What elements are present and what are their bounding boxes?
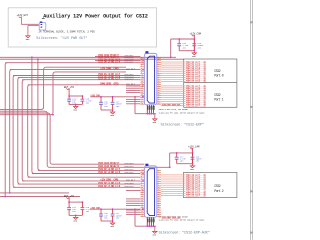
pin 21 right stub J2 [157,101,161,103]
svg-text:CSI2: CSI2 [214,70,220,74]
junction mounting pin 2 J3 [148,225,150,227]
svg-text:23: 23 [158,103,160,105]
junction cap1 top lower [176,152,178,154]
pin 5 right stub J2 [157,66,161,68]
wire port1 row 9 [161,101,185,103]
junction pin row upper 2 [142,62,144,64]
junction pin row lower 5 [142,208,144,210]
svg-text:14: 14 [158,83,160,85]
junction 3v3 cap1 lower [100,208,102,210]
svg-text:8: 8 [158,70,159,72]
wire port2 row 1 [161,174,185,176]
svg-text:CSI2_D2_L0_P...20: CSI2_D2_L0_P...20 [186,104,207,107]
wire port2 row 11 [161,195,185,197]
ground caps lower [190,164,194,168]
junction rail-row upper [170,56,172,58]
wire port0 row 3 [161,65,185,67]
pin 19 right stub J3 [157,209,161,211]
wire 3v3 rail lower [90,208,140,210]
svg-text:CSI2_D2_L0_P...20: CSI2_D2_L0_P...20 [186,194,207,197]
svg-text:I2C1_SDA I2C1_SCL: I2C1_SDA I2C1_SCL [162,216,181,219]
pin 16 left stub J2 [140,90,144,92]
pin 3 right stub J3 [157,174,161,176]
svg-text:2: 2 [141,57,142,59]
junction pin row lower 2 [142,173,144,175]
svg-text:2: 2 [158,169,159,171]
svg-text:6: 6 [158,178,159,180]
wire net BAT_+5V top row [0,58,184,60]
wire C-route 2 (row 71.9 to left-edge row 114.7) [0,72,126,115]
pin 1 right stub J3 [157,170,161,172]
pin 4 left stub J2 [140,64,144,66]
svg-text:CSI2_D2_P: CSI2_D2_P [125,77,135,80]
capacitor C17 [111,97,123,110]
pin 8 left stub J3 [140,185,144,187]
pin 13 left stub J2 [140,83,144,85]
connector J2 body [144,51,156,105]
wire shield bar J3 [135,225,156,227]
note box outline [8,8,156,47]
svg-text:10: 10 [141,74,143,76]
wire BAT_+5V lead upper [68,89,70,96]
wire bus vertical 4 [18,78,20,185]
svg-text:9: 9 [141,185,142,187]
pin 14 right stub J3 [157,198,161,200]
ground 3v3 caps lower [110,221,114,225]
svg-text:11: 11 [158,189,160,191]
wire ground drop [27,25,29,34]
wire port1 row 6 [161,95,185,97]
wire lower fan row 6 [13,186,140,188]
sheet symbol CSI2 port 2 box lower [184,172,237,197]
wire port0 row 6 [161,71,185,73]
svg-text:17: 17 [141,202,143,204]
pin 19 left stub J2 [140,97,144,99]
wire port2 row 2 [161,176,185,178]
junction pin row upper 1 [142,60,144,62]
svg-text:11: 11 [141,77,143,79]
wire upper stub pin row 6 [126,101,140,103]
wire upper fan row 7 [18,77,141,79]
wire bus vertical 7 [32,57,34,173]
svg-text:12: 12 [158,79,160,81]
pin 5 left stub J2 [140,66,144,68]
pin 4 right stub J3 [157,176,161,178]
wire upper stub pin row 7 [126,103,140,105]
pin 5 left stub J3 [140,178,144,180]
svg-text:CSI2_D1_P: CSI2_D1_P [125,185,135,188]
pin 2 right stub J3 [157,172,161,174]
wire upper fan row 9 [28,84,141,86]
capacitor C23 [191,153,203,164]
wire port2 row 3 [161,178,185,180]
pin 3 right stub J2 [157,61,161,63]
wire port0 row 9 [161,77,185,79]
connector J1 terminal block [39,22,46,31]
junction 3v3 bottom lower [112,220,114,222]
svg-text:21: 21 [141,99,143,101]
svg-text:8: 8 [141,183,142,185]
svg-text:16: 16 [141,88,143,90]
pin 2 left stub J3 [140,172,144,174]
svg-text:22: 22 [141,101,143,103]
wire lower stub pin row 7 [126,211,140,213]
svg-text:+12V_CAM: +12V_CAM [190,33,202,36]
svg-text:17: 17 [158,202,160,204]
wire upper fan row 6 [13,75,140,77]
svg-text:22: 22 [158,101,160,103]
svg-text:Silkscreen: "CSI2-EXP": Silkscreen: "CSI2-EXP" [161,123,204,128]
junction rail-row lower [169,166,171,168]
wire +12V_CAM vertical lower [192,148,194,164]
power flag +12V_EXT [17,14,29,18]
pin 13 left stub J3 [140,196,144,198]
wire lower stub pin row 6 [126,209,140,211]
junction bat bottom lower [75,215,77,217]
pin 14 left stub J3 [140,198,144,200]
junction shield top J2 [134,96,136,98]
pin 2 left stub J2 [140,59,144,61]
svg-text:4: 4 [141,174,142,176]
pin 22 left stub J2 [140,103,144,105]
power flag BAT_+5V upper [64,86,75,90]
wire port0 row 7 [161,73,185,75]
svg-text:10: 10 [158,187,160,189]
pin 1 left stub J3 [140,170,144,172]
sheet border zone tick 3 [250,190,253,192]
sheet border inner line [249,0,251,240]
svg-text:6: 6 [141,66,142,68]
wire port0 row 4 [161,67,185,69]
pin 7 right stub J2 [157,70,161,72]
svg-text:3: 3 [158,172,159,174]
wire bus vertical 2 [10,70,12,193]
wire lower stub pin row 2 [126,198,140,200]
svg-text:Silkscreen: "12V PWR OUT": Silkscreen: "12V PWR OUT" [36,36,87,41]
pin 4 left stub J3 [140,176,144,178]
svg-text:23: 23 [141,103,143,105]
wire upper fan row 3 [95,60,140,62]
pin 2 right stub J2 [157,59,161,61]
junction cap rail lower [192,152,194,154]
sheet symbol CSI2 ports box upper [184,59,237,107]
wire net +12V top rail row [0,56,171,58]
svg-text:Port 1: Port 1 [214,98,223,103]
wire 3v3 cap bottoms upper [101,109,113,111]
svg-text:18: 18 [158,92,160,94]
junction mounting pin 2 J2 [148,113,150,115]
pin 18 left stub J2 [140,94,144,96]
wire port1 row 2 [161,87,185,89]
power flag BAT_+5V lower [64,195,75,199]
wire port0 row 5 [161,69,185,71]
junction pin row upper 4 [142,77,144,79]
wire lower power row 1 [0,192,69,194]
junction mounting pin 3 J3 [151,225,153,227]
junction mounting pin 4 J3 [153,225,155,227]
ground under J2 [153,117,157,121]
svg-text:15: 15 [141,85,143,87]
pin 20 left stub J2 [140,99,144,101]
connector J3 body [144,164,156,218]
wire gnd drop J3 [154,226,156,230]
wire cap rail left drop upper [170,39,172,57]
junction on vertical 8 top [37,58,39,60]
svg-text:GPIO: GPIO [113,83,119,86]
pin 18 left stub J3 [140,207,144,209]
mounting pins J2 [147,105,153,114]
capacitor C27 [111,209,123,221]
capacitor C26 [99,209,108,221]
wire upper stub pin row 5 [126,98,140,100]
pin 19 right stub J2 [157,97,161,99]
capacitor C25 [81,202,93,215]
title leading underscore mark [42,18,45,20]
svg-text:5: 5 [141,176,142,178]
junction cap1 top upper [178,38,180,40]
svg-text:16: 16 [141,200,143,202]
wire upper stub pin row 4 [126,92,140,94]
mounting pins J3 [147,217,153,226]
wire bus vertical 1 [5,63,7,197]
svg-text:D1_L1_P: D1_L1_P [111,77,120,80]
pin 18 right stub J2 [157,94,161,96]
pin 20 right stub J3 [157,211,161,213]
wire upper stub pin row 3 [126,89,140,91]
wire upper stub pin row 1 [126,85,140,87]
capacitor C19 [192,39,204,51]
junction cap rail upper [193,38,195,40]
pin 8 right stub J3 [157,185,161,187]
svg-text:+12V_CAM: +12V_CAM [188,146,200,149]
svg-text:19: 19 [158,207,160,209]
svg-text:CSI2_D2_L0_P...20: CSI2_D2_L0_P...20 [186,80,207,83]
pin 19 left stub J3 [140,209,144,211]
pin 8 right stub J2 [157,72,161,74]
pin 13 right stub J2 [157,83,161,85]
wire lower stub pin row 1 [126,190,140,192]
pin 15 left stub J2 [140,88,144,90]
pin 6 right stub J2 [157,68,161,70]
svg-text:D0_L0_N: D0_L0_N [111,60,120,63]
ground bat caps upper [74,105,78,109]
wire lower stub pin row 3 [126,200,140,202]
wire port0 row 2 [161,63,185,65]
svg-text:10: 10 [158,74,160,76]
pin 11 left stub J2 [140,79,144,81]
svg-text:CSI2_D0_P: CSI2_D0_P [126,67,136,70]
svg-text:4: 4 [158,174,159,176]
svg-text:5: 5 [158,176,159,178]
junction mounting pin 1 J3 [146,225,148,227]
wire upper fan row 4 [5,62,140,64]
ground bat caps lower [74,216,78,220]
pin 22 left stub J3 [140,216,144,218]
wire upper fan row 0 [95,55,140,57]
wire lower stub pin row 4 [126,202,140,204]
pin 17 left stub J3 [140,205,144,207]
wire mid route 4 (left edge y113.0 down to lower row 164.2) [0,113,144,164]
wire port1 row 11 [161,104,185,106]
junction pin row upper 3 [142,69,144,71]
wire +12V_CAM vertical upper [193,35,195,51]
pin 12 right stub J2 [157,81,161,83]
wire bat rail upper [69,95,82,97]
pin 16 right stub J2 [157,90,161,92]
junction cap bottom lower [192,163,194,165]
pin 10 right stub J2 [157,77,161,79]
wire port1 row 7 [161,97,185,99]
pin 20 left stub J3 [140,211,144,213]
wire lower stub pin row 8 [126,213,140,215]
svg-text:9: 9 [141,72,142,74]
svg-text:7: 7 [141,68,142,70]
svg-text:15: 15 [158,85,160,87]
ports box divider [184,82,237,84]
pin 1 right stub J2 [157,57,161,59]
wire port0 row 8 [161,75,185,77]
svg-text:12: 12 [158,191,160,193]
svg-text:12: 12 [141,79,143,81]
svg-text:2: 2 [141,169,142,171]
wire 3v3 cap bottoms lower [101,220,113,222]
pin 9 right stub J2 [157,75,161,77]
svg-text:14: 14 [141,83,143,85]
wire port2 row 5 [161,182,185,184]
pin 5 right stub J3 [157,178,161,180]
svg-text:3: 3 [141,59,142,61]
wire lower fan row 2 [32,173,140,175]
wire port2 row 6 [161,184,185,186]
pin 15 right stub J2 [157,88,161,90]
wire port0 row 11 [161,81,185,83]
pin 9 left stub J2 [140,75,144,77]
pin 1 left stub J2 [140,57,144,59]
svg-text:CSI2_D0_P: CSI2_D0_P [126,83,136,86]
svg-text:11: 11 [158,77,160,79]
pin 21 left stub J3 [140,214,144,216]
power flag +12V_CAM upper [190,33,202,37]
junction on vertical 2 bottom [9,192,11,194]
pin numbers J2 [141,57,160,105]
wire upper stub pin row 2 [126,87,140,89]
pin 4 right stub J2 [157,64,161,66]
svg-text:21: 21 [141,211,143,213]
svg-text:7: 7 [158,180,159,182]
svg-text:14: 14 [158,196,160,198]
junction bat cap2 upper [82,95,84,97]
svg-text:9: 9 [158,185,159,187]
wire port2 row 10 [161,192,185,194]
capacitor C15 [81,96,93,105]
wire cap bottoms lower [177,163,193,165]
svg-text:D2_L0_N: D2_L0_N [111,171,120,174]
pin 6 left stub J3 [140,181,144,183]
svg-text:Port 0: Port 0 [214,74,223,79]
svg-text:4: 4 [141,61,142,63]
pin 9 right stub J3 [157,187,161,189]
pin 20 right stub J2 [157,99,161,101]
svg-text:19: 19 [141,94,143,96]
capacitor C24 [67,202,76,215]
wire port2 row 9 [161,190,185,192]
pin 12 left stub J3 [140,194,144,196]
junction pin row upper 6 [142,96,144,98]
svg-text:CAM0: CAM0 [113,67,119,70]
junction 3v3 cap1 upper [100,96,102,98]
wire port0 row 10 [161,79,185,81]
wire cap rail left drop lower [169,153,171,167]
wire upper fan row 1 extension [171,56,176,58]
pin 21 left stub J2 [140,101,144,103]
wire port1 row 1 [161,85,185,87]
svg-text:20: 20 [158,209,160,211]
junction 3v3 cap2 lower [112,208,114,210]
svg-text:Auxiliary 12V Power Output for: Auxiliary 12V Power Output for CSI2 [43,13,148,19]
junction pin row lower 4 [142,190,144,192]
wire lower fan row 3 [28,176,141,178]
wire shield drop J3 [134,209,136,226]
sheet border zone tick 2 [250,106,253,108]
svg-text:16: 16 [158,88,160,90]
svg-text:13: 13 [141,81,143,83]
svg-text:17: 17 [141,90,143,92]
svg-text:12: 12 [141,191,143,193]
svg-text:8: 8 [141,70,142,72]
svg-text:9: 9 [158,72,159,74]
wire port1 row 5 [161,93,185,95]
wire port2 row 8 [161,188,185,190]
pin 7 left stub J2 [140,70,144,72]
pin 6 left stub J2 [140,68,144,70]
svg-text:21: 21 [158,99,160,101]
junction pin row lower 1 [142,170,144,172]
wire BAT_+5V lead lower [68,198,70,203]
wire +12V_EXT vertical [21,17,23,24]
junction pin row lower 3 [142,180,144,182]
wire to connector pin 2 [28,24,39,26]
svg-text:18: 18 [141,92,143,94]
svg-text:14: 14 [141,196,143,198]
svg-text:2A TERMINAL BLOCK, 3.50MM PITC: 2A TERMINAL BLOCK, 3.50MM PITCH, 2 POS [39,31,96,34]
wire C-route 1 (row 67.2 to left-edge row 109.4) [0,67,126,109]
wire port1 row 8 [161,99,185,101]
pin 17 right stub J2 [157,92,161,94]
junction pin row upper 5 [142,84,144,86]
wire bus vertical 5 [22,80,24,181]
junction C-route 2 [52,114,54,116]
wire port2 row 7 [161,186,185,188]
svg-text:2: 2 [158,57,159,59]
svg-text:CSI2: CSI2 [214,185,220,189]
pin 10 left stub J2 [140,77,144,79]
svg-text:18: 18 [158,205,160,207]
pin 10 right stub J3 [157,189,161,191]
svg-text:CSI2_D3_P: CSI2_D3_P [125,60,135,63]
junction 3v3 bottom upper [112,109,114,111]
svg-text:3: 3 [158,59,159,61]
wire upper fan row 8 [22,79,140,81]
pin numbers J3 [141,169,160,217]
svg-text:11: 11 [141,189,143,191]
junction cap bottom upper [193,50,195,52]
svg-text:7: 7 [158,68,159,70]
wire bus vertical 6 [28,85,30,177]
pin 14 left stub J2 [140,86,144,88]
svg-text:SLIDE-LOCK FPC CONN, BOTTOM CO: SLIDE-LOCK FPC CONN, BOTTOM CONTACTS OF … [159,112,206,115]
junction mounting pin 4 J2 [153,113,155,115]
junction mounting pin 1 J2 [146,113,148,115]
